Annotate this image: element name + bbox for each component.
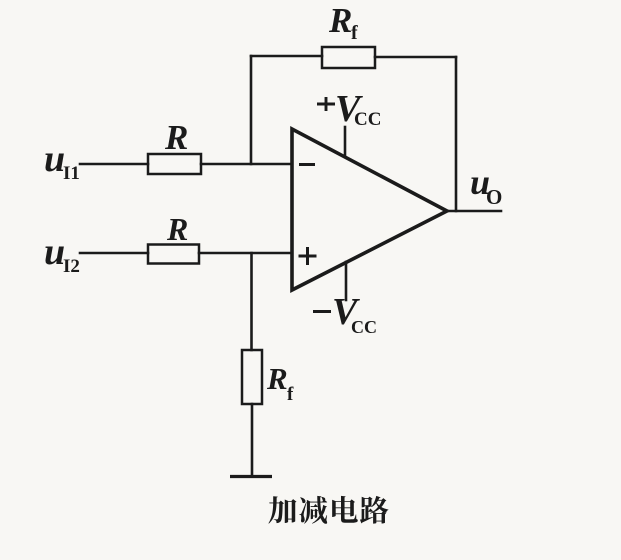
wire output (447, 210, 501, 213)
resistor R1 box (148, 154, 201, 174)
wire +Vcc tick (344, 127, 347, 156)
op-amp inverting input minus sign (299, 163, 315, 166)
op-amp noninverting input plus sign (299, 247, 317, 265)
resistor Rf bottom box (242, 350, 262, 404)
op-amp U1 triangle (292, 129, 447, 290)
svg-text:f: f (287, 384, 294, 405)
svg-text:u: u (44, 231, 65, 273)
svg-text:R: R (166, 211, 188, 247)
svg-text:R: R (164, 118, 188, 157)
svg-text:f: f (351, 22, 358, 44)
svg-text:I2: I2 (63, 256, 80, 277)
svg-text:CC: CC (351, 317, 377, 337)
resistor R2 box (148, 245, 199, 264)
svg-text:O: O (486, 185, 502, 209)
ground (230, 475, 272, 478)
wire top-left horizontal (251, 55, 322, 58)
svg-text:R: R (266, 361, 288, 396)
wire top-right horizontal (375, 56, 456, 59)
wire left vertical feedback (250, 56, 253, 164)
wire bottom vertical upper (250, 253, 253, 350)
wire -Vcc tick (345, 262, 348, 300)
svg-text:CC: CC (354, 109, 381, 130)
resistor Rf top box (322, 47, 375, 68)
wire input1 right to inverting input (201, 163, 292, 166)
wire input1 left (80, 163, 148, 166)
wire bottom vertical lower (251, 404, 254, 476)
wire right vertical feedback (455, 57, 458, 211)
svg-text:u: u (44, 138, 65, 180)
wire input2 right to noninverting input (199, 252, 292, 255)
label +Vcc plus sign (317, 97, 335, 111)
wire input2 left (80, 252, 148, 255)
svg-text:R: R (328, 1, 352, 40)
label -Vcc minus sign (313, 310, 331, 313)
svg-text:I1: I1 (63, 163, 80, 184)
caption 加减电路 (268, 496, 388, 524)
